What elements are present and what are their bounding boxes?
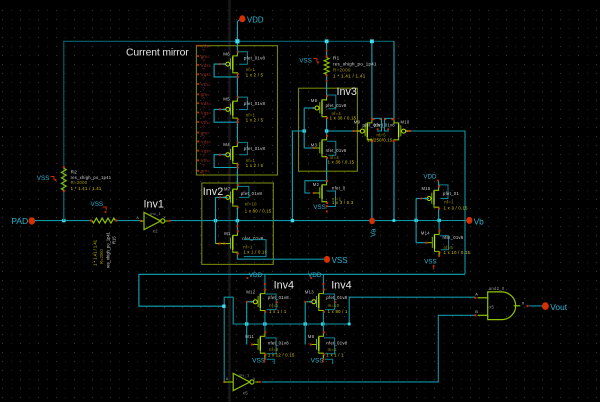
svg-text:M9: M9	[354, 119, 361, 124]
svg-text:M1: M1	[224, 231, 231, 236]
node PAD junction	[62, 219, 65, 222]
svg-text:1 x 3 / 0.15: 1 x 3 / 0.15	[444, 206, 468, 211]
wire Inv1 output to Vb	[170, 220, 467, 222]
svg-text:R2: R2	[71, 170, 78, 175]
svg-text:1 x 10 / 0.15: 1 x 10 / 0.15	[444, 250, 471, 255]
svg-text:M6: M6	[223, 51, 230, 56]
ground VSS label at M14	[424, 259, 436, 270]
annotation red operating-point column	[197, 44, 212, 178]
svg-text:res_xhigh_po_1p41: res_xhigh_po_1p41	[71, 175, 112, 180]
svg-text:VSS: VSS	[91, 201, 104, 208]
ground VSS label at R1	[299, 58, 319, 65]
svg-text:x5: x5	[243, 391, 248, 396]
label Inv2	[203, 186, 223, 198]
svg-text:R15: R15	[112, 236, 117, 244]
svg-text:1 x 1 / 1: 1 x 1 / 1	[269, 309, 287, 314]
svg-text:Inv4: Inv4	[331, 279, 351, 291]
svg-text:1 x 2 / 5: 1 x 2 / 5	[246, 118, 264, 123]
transistor M8 pfet_01v8 (Inv3)	[311, 95, 357, 131]
svg-text:nfet_01v8: nfet_01v8	[242, 236, 264, 241]
wire M15/M14 gate riser	[416, 198, 429, 243]
wire PAD net horizontal	[35, 220, 142, 222]
svg-text:VSS: VSS	[299, 58, 312, 65]
ground VSS label at M8	[311, 358, 333, 365]
label Inv4 (right cell)	[331, 279, 351, 291]
wire Inv3 gate riser	[304, 108, 315, 148]
wire M13/M8 gate riser	[304, 301, 311, 345]
svg-text:pfet_01v8: pfet_01v8	[268, 295, 289, 300]
svg-text:pfet_01v8: pfet_01v8	[244, 56, 266, 61]
svg-text:VSS: VSS	[313, 204, 325, 211]
svg-text:x5: x5	[489, 304, 494, 309]
svg-text:VSS: VSS	[37, 175, 50, 182]
svg-text:VDD: VDD	[423, 174, 437, 181]
svg-text:1 x 80 / 0.15: 1 x 80 / 0.15	[245, 208, 272, 213]
inverter x5 (feedback)	[223, 373, 261, 396]
current mirror instance box	[196, 46, 277, 175]
wire vertical B	[393, 118, 395, 220]
svg-text:1 x 80 / 1: 1 x 80 / 1	[328, 309, 348, 314]
svg-text:A: A	[136, 216, 139, 220]
svg-text:R=2000: R=2000	[71, 180, 88, 185]
transistor M7 pfet_01v8	[223, 184, 272, 220]
ground VSS label at M2	[313, 204, 328, 212]
svg-text:Va: Va	[369, 228, 378, 237]
node main wire junctions	[214, 219, 441, 223]
svg-text:M4: M4	[223, 142, 230, 147]
wire top edge right segment	[372, 41, 394, 118]
svg-text:X: X	[522, 301, 525, 306]
svg-text:pfet_01v8: pfet_01v8	[326, 295, 347, 300]
svg-text:1 * 1.41 / 1.41: 1 * 1.41 / 1.41	[333, 73, 366, 78]
wire Inv4 input bus	[247, 323, 350, 325]
resistor R15 res_xhigh_po_1p41 (series pad resistor)	[90, 218, 118, 268]
svg-text:m=10: m=10	[328, 303, 340, 308]
wire current-mirror column	[236, 41, 238, 185]
svg-text:Inv2: Inv2	[203, 186, 223, 198]
svg-text:M3: M3	[311, 143, 318, 148]
svg-text:1 x 36 / 0.15: 1 x 36 / 0.15	[330, 116, 357, 121]
svg-text:M10: M10	[401, 119, 410, 124]
svg-text:M15: M15	[422, 186, 431, 191]
svg-text:1 x 1 / 0.15: 1 x 1 / 0.15	[243, 250, 267, 255]
svg-text:nf=1: nf=1	[269, 303, 279, 308]
svg-text:?: ?	[202, 173, 205, 178]
svg-text:A: A	[475, 292, 478, 297]
svg-text:x2: x2	[153, 229, 158, 234]
svg-text:M8: M8	[311, 98, 318, 103]
svg-text:VSS: VSS	[332, 256, 348, 265]
wire AND input B from x5	[262, 315, 476, 382]
svg-text:nfet_0: nfet_0	[332, 185, 346, 190]
port PAD	[11, 216, 35, 226]
svg-text:R=2000: R=2000	[99, 249, 104, 264]
svg-text:and2_0: and2_0	[489, 286, 505, 291]
transistor M14 nfet_01v8	[421, 220, 471, 257]
transistor M15 pfet_01v8	[422, 181, 469, 220]
svg-text:pfet_01v8: pfet_01v8	[244, 146, 266, 151]
transistor M13 pfet_01v8 (Inv4)	[305, 274, 348, 324]
node top wire junctions	[235, 39, 373, 43]
svg-text:VDD: VDD	[247, 15, 264, 24]
wire Inv3 input riser	[292, 131, 304, 221]
svg-text:?: ?	[202, 48, 205, 53]
svg-text:Y: Y	[253, 377, 256, 381]
power VDD top	[239, 15, 264, 24]
wire VDD rail / feedback	[139, 274, 465, 306]
wire	[228, 0, 231, 402]
transistor M12 pfet_01v8 (Inv4)	[246, 274, 289, 324]
svg-text:res_xhigh_po_1p41: res_xhigh_po_1p41	[106, 231, 111, 268]
svg-text:VDD: VDD	[308, 272, 322, 279]
transistor M2 nfet_01v8	[305, 159, 354, 207]
wire R1 column	[326, 41, 328, 96]
svg-text:nfet_01v8: nfet_01v8	[326, 340, 347, 345]
node Vb	[466, 216, 484, 226]
wire vertical A (to Va)	[371, 41, 373, 220]
svg-text:Y: Y	[163, 216, 166, 220]
inverter Inv1 (x2)	[136, 199, 170, 234]
power VDD label at M15	[423, 174, 438, 182]
svg-text:M8: M8	[308, 334, 315, 339]
svg-text:pfet_01v8: pfet_01v8	[326, 103, 347, 108]
wire Inv3 output to pass gates	[327, 130, 359, 132]
wire VSS net from Inv2	[237, 253, 325, 259]
ground VSS label at R2	[37, 175, 57, 182]
label Inv3	[337, 86, 357, 98]
ground VSS label at M11	[252, 358, 274, 365]
svg-text:nfet_01v8: nfet_01v8	[326, 148, 347, 153]
svg-text:1 x 2 / 5: 1 x 2 / 5	[246, 72, 264, 77]
svg-text:1 x 12 / 0.15: 1 x 12 / 0.15	[268, 353, 295, 358]
svg-text:M2: M2	[313, 182, 320, 187]
svg-text:Current mirror: Current mirror	[126, 48, 189, 59]
wire Inv2 gate riser	[216, 196, 228, 243]
transistor M6 pfet_01v8 mirror	[214, 51, 265, 78]
svg-text:Vout: Vout	[550, 302, 567, 312]
svg-text:Inv4: Inv4	[274, 279, 294, 291]
label Current mirror	[126, 48, 189, 59]
transistor M9 pfet_01v8 (pass gate)	[353, 118, 384, 142]
transistor M3 nfet_01v8 (Inv3)	[311, 131, 355, 164]
svg-text:1 x 2 / 5: 1 x 2 / 5	[246, 163, 264, 168]
Inv3 instance box	[299, 88, 358, 171]
svg-text:Inv3: Inv3	[337, 86, 357, 98]
wire top-left loop	[64, 41, 372, 220]
svg-text:nf=8: nf=8	[269, 347, 279, 352]
svg-text:M14: M14	[421, 230, 430, 235]
svg-text:R=2000: R=2000	[333, 67, 351, 72]
svg-text:?: ?	[202, 125, 205, 130]
svg-text:1 * 1.41 / 1.41: 1 * 1.41 / 1.41	[93, 239, 98, 266]
transistor M1 nfet_01v8	[216, 221, 268, 257]
resistor R1 res_xhigh_po_1p41	[324, 50, 377, 82]
svg-text:B: B	[475, 309, 478, 314]
wire AND input A	[349, 297, 475, 324]
svg-text:nf=1: nf=1	[444, 200, 454, 205]
transistor M4 pfet_01v8 mirror	[214, 141, 265, 168]
label Inv4 (left cell)	[274, 279, 294, 291]
port Vout	[542, 302, 568, 312]
svg-text:1 x 3 / 0.3: 1 x 3 / 0.3	[332, 200, 354, 205]
svg-text:m=1: m=1	[328, 347, 337, 352]
svg-text:pfet_01v8: pfet_01v8	[241, 191, 263, 196]
svg-text:PAD: PAD	[11, 216, 28, 226]
svg-text:nfet_01v8: nfet_01v8	[443, 235, 464, 240]
transistor M10 pfet_01v8 (pass gate)	[367, 118, 411, 142]
wire Inv4 input jog	[224, 297, 247, 324]
wire x5 inverter input column	[223, 306, 225, 382]
svg-text:M11: M11	[245, 334, 254, 339]
resistor R2 res_xhigh_po_1p41	[61, 166, 111, 220]
svg-text:1 * 1.41 / 1.41: 1 * 1.41 / 1.41	[71, 186, 102, 191]
power VDD labels on rail	[247, 272, 322, 279]
svg-text:res_xhigh_po_1p41: res_xhigh_po_1p41	[333, 62, 377, 67]
transistor M8 nfet_01v8 (Inv4)	[308, 324, 348, 360]
ground VSS mid (Inv2 source)	[324, 256, 348, 265]
svg-text:?: ?	[202, 163, 205, 168]
node Va	[369, 218, 378, 237]
svg-text:VDD: VDD	[249, 272, 263, 279]
svg-text:Inv1: Inv1	[144, 199, 164, 211]
svg-text:nfet_01v8: nfet_01v8	[268, 340, 289, 345]
svg-text:nf=10: nf=10	[245, 202, 257, 207]
svg-text:1 x 36 / 0.15: 1 x 36 / 0.15	[328, 159, 355, 164]
node Inv3 junctions	[303, 129, 329, 132]
svg-text:M13: M13	[305, 289, 314, 294]
wire pass-gate output to feedback loop	[410, 131, 465, 274]
svg-text:R1: R1	[333, 56, 340, 61]
svg-text:inv_1: inv_1	[150, 211, 161, 216]
svg-text:1 x 1 / 1: 1 x 1 / 1	[326, 353, 344, 358]
transistor M11 nfet_01v8 (Inv4)	[245, 324, 295, 360]
svg-text:pfet_01v8: pfet_01v8	[244, 101, 266, 106]
wire M12/M11 gate riser	[246, 301, 253, 345]
Inv2 instance box	[202, 183, 273, 264]
transistor M5 pfet_01v8 mirror	[214, 96, 265, 123]
ground VSS label at R15	[91, 201, 107, 213]
wire VDD stub	[237, 20, 240, 42]
svg-text:M7: M7	[224, 187, 231, 192]
node Inv4 junctions	[222, 305, 350, 326]
wire pass-gate cross ties	[373, 118, 394, 131]
svg-text:10/250/0.15: 10/250/0.15	[367, 137, 393, 142]
svg-text:pfet_01: pfet_01	[443, 191, 459, 196]
gate and2_0 (x5)	[474, 286, 542, 320]
svg-text:VSS: VSS	[424, 259, 436, 266]
svg-text:?: ?	[202, 86, 205, 91]
svg-text:Vb: Vb	[474, 216, 485, 226]
svg-text:A: A	[226, 377, 229, 381]
svg-text:M5: M5	[223, 97, 230, 102]
svg-text:M12: M12	[246, 289, 255, 294]
